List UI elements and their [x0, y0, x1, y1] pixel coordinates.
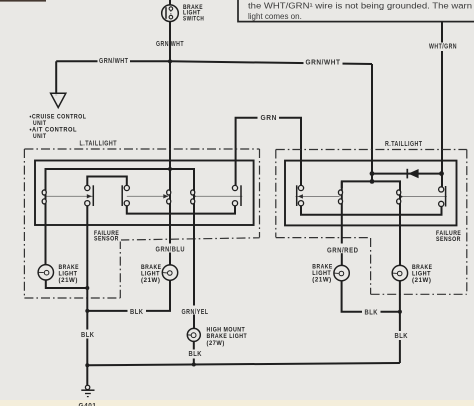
terminal T1 (wire + ovals) — [42, 169, 46, 225]
node: GRN/WHT to R bus junction — [370, 179, 375, 184]
svg-text:GRN/YEL: GRN/YEL — [182, 309, 209, 316]
wire: high mount down to ground bus — [193, 342, 195, 366]
R taillight outer dash-dot boundary — [276, 150, 467, 295]
label: GRN/WHT (left) — [98, 57, 131, 66]
wire: GRN/WHT vertical down right side — [371, 64, 373, 181]
wire: BLK main ground drop — [86, 288, 88, 385]
svg-text:BLK: BLK — [365, 309, 379, 316]
node: junction BLK R — [398, 310, 402, 314]
wire: bulb 1 down then right to BLK junction — [46, 280, 88, 288]
wire: R power bus to T8 and T10 — [342, 181, 400, 188]
terminal T4 (wire + ovals) on switch feed — [167, 169, 171, 244]
L taillight inner connector box — [35, 161, 254, 226]
svg-text:SENSOR: SENSOR — [436, 236, 461, 243]
svg-text:SWITCH: SWITCH — [183, 16, 204, 23]
node: junction ground bus / main drop — [85, 363, 89, 367]
wire: brake light switch feed from top edge — [169, 0, 171, 5]
svg-text:R.TAILLIGHT: R.TAILLIGHT — [385, 141, 423, 148]
brake light 3 bulb — [334, 265, 349, 280]
label: HIGH MOUNT BRAKE LIGHT (27W) — [207, 327, 248, 347]
svg-text:BLK: BLK — [395, 333, 409, 340]
wire: BL1 feed down from box — [45, 225, 47, 265]
wire: GRN/RED to brake light 3 — [341, 253, 343, 265]
label: R.TAILLIGHT — [383, 139, 426, 149]
node: diode left junction — [370, 171, 375, 176]
label: FAILURE SENSOR (right) — [434, 229, 464, 244]
wire: bulb 3 down then right (BLK) — [342, 281, 400, 312]
svg-text:WHT/GRN: WHT/GRN — [429, 43, 457, 50]
svg-text:(21W): (21W) — [312, 277, 332, 284]
svg-text:the WHT/GRN¹ wire is not being: the WHT/GRN¹ wire is not being grounded.… — [248, 1, 472, 10]
svg-text:GRN/WHT: GRN/WHT — [99, 58, 129, 65]
brake light 1 bulb — [38, 265, 53, 280]
terminal T9 (circles + bar) — [439, 186, 446, 207]
svg-text:(27W): (27W) — [207, 340, 225, 347]
L taillight outer dash-dot boundary — [24, 149, 259, 298]
brake light switch SW — [162, 5, 179, 22]
thin connector mating line L with arrows — [47, 194, 243, 198]
wire: bulb 2 down and left (BLK) — [87, 280, 170, 311]
brake light 4 bulb — [392, 265, 407, 280]
dark page-edge mark top left — [0, 0, 46, 2]
label: BRAKE LIGHT (21W) for bulb 3 — [312, 264, 333, 284]
svg-text:GRN: GRN — [261, 115, 278, 122]
svg-text:(21W): (21W) — [141, 277, 161, 284]
node: junction bus / switch wire — [168, 167, 172, 171]
svg-text:L.TAILLIGHT: L.TAILLIGHT — [80, 141, 118, 148]
node: junction BLK horizontal — [85, 309, 89, 313]
terminal T2 (circles + bar) — [85, 185, 94, 206]
label: BLK (R horizontal) — [362, 307, 381, 316]
wire: bulb 4 down to ground bus — [399, 281, 401, 363]
node: junction ground bus / high mount — [192, 363, 196, 367]
high mount brake light bulb — [187, 328, 200, 341]
terminal T10 (wire + ovals) — [397, 181, 401, 265]
svg-text:BLK: BLK — [189, 351, 203, 358]
wire: GRN/YEL to high mount light — [193, 315, 195, 329]
R taillight inner connector box — [285, 161, 457, 226]
svg-text:UNIT: UNIT — [33, 133, 47, 140]
terminal T3 (bar + circles) — [122, 185, 129, 206]
terminal T6 (circles + bar) — [232, 185, 241, 206]
wire: branch down to cruise control arrow — [55, 61, 57, 96]
label: GRN/YEL — [179, 307, 213, 317]
label: BLK (on ground drop) — [79, 330, 96, 340]
wire: L distribution bus inside box — [46, 169, 195, 188]
wire: T7 bottom to T9 bottom bus — [301, 206, 442, 215]
svg-text:BLK: BLK — [130, 309, 144, 316]
label: cruise control / AT control unit — [30, 113, 87, 140]
wire: GRN bridge between taillights — [236, 118, 301, 186]
svg-text:GRN/WHT: GRN/WHT — [306, 59, 341, 66]
svg-text:SENSOR: SENSOR — [94, 235, 119, 242]
ground G401 — [79, 385, 97, 406]
brake light 2 bulb — [162, 265, 177, 280]
wire: WHT/GRN from note-box line down — [441, 22, 443, 187]
svg-text:light comes on.: light comes on. — [248, 12, 302, 21]
arrow: to cruise control / AT control unit — [51, 93, 66, 107]
node: junction switch wire / GRN/WHT — [168, 59, 172, 63]
node: diode right junction — [439, 171, 444, 176]
note text box (top right, partially cut) — [238, 0, 474, 22]
label: GRN/BLU — [153, 244, 188, 254]
label: BRAKE LIGHT (21W) for bulb 2 — [141, 264, 162, 284]
jumper between T2 and T3 tops — [87, 177, 127, 186]
svg-text:BLK: BLK — [81, 332, 95, 339]
label: GRN/WHT (right) — [304, 58, 343, 67]
terminal T8 (wire + ovals) — [338, 181, 342, 243]
label: BLK (L horizontal) — [128, 307, 147, 316]
svg-text:(21W): (21W) — [412, 277, 432, 284]
wire: bottom ground bus — [87, 363, 400, 365]
diode between GRN/WHT and WHT/GRN — [372, 169, 442, 179]
node: junction BL1/T2 wire — [85, 286, 89, 290]
label: BRAKE LIGHT (21W) for bulb 4 — [412, 264, 433, 284]
wire: switch down to L taillight — [169, 22, 171, 169]
label: BRAKE LIGHT SWITCH — [183, 4, 204, 23]
label: FAILURE SENSOR (left) — [92, 229, 121, 242]
svg-text:(21W): (21W) — [59, 277, 79, 284]
label: BRAKE LIGHT (21W) for bulb 1 — [59, 264, 80, 284]
label: BLK (on R drop) — [393, 331, 410, 340]
terminal T7 (bar + circles) — [297, 185, 304, 206]
label: GRN — [258, 114, 280, 123]
label: GRN/RED — [324, 245, 361, 255]
wire: T3 bottom to T6 bottom bus — [127, 206, 235, 214]
terminal T5 (wire + ovals) — [191, 169, 195, 306]
label: GRN/WHT (switch wire) — [154, 39, 187, 49]
wire: GRN/BLU to brake light 2 — [169, 253, 171, 265]
wire: T2 down out of box — [86, 206, 88, 288]
label: BLK (below high mount) — [187, 350, 204, 359]
thin connector mating line R with arrows — [296, 194, 447, 198]
wire: GRN/WHT horizontal branch — [56, 61, 372, 64]
bottom cream strip of scanned page — [0, 400, 474, 406]
label: WHT/GRN — [427, 43, 459, 52]
